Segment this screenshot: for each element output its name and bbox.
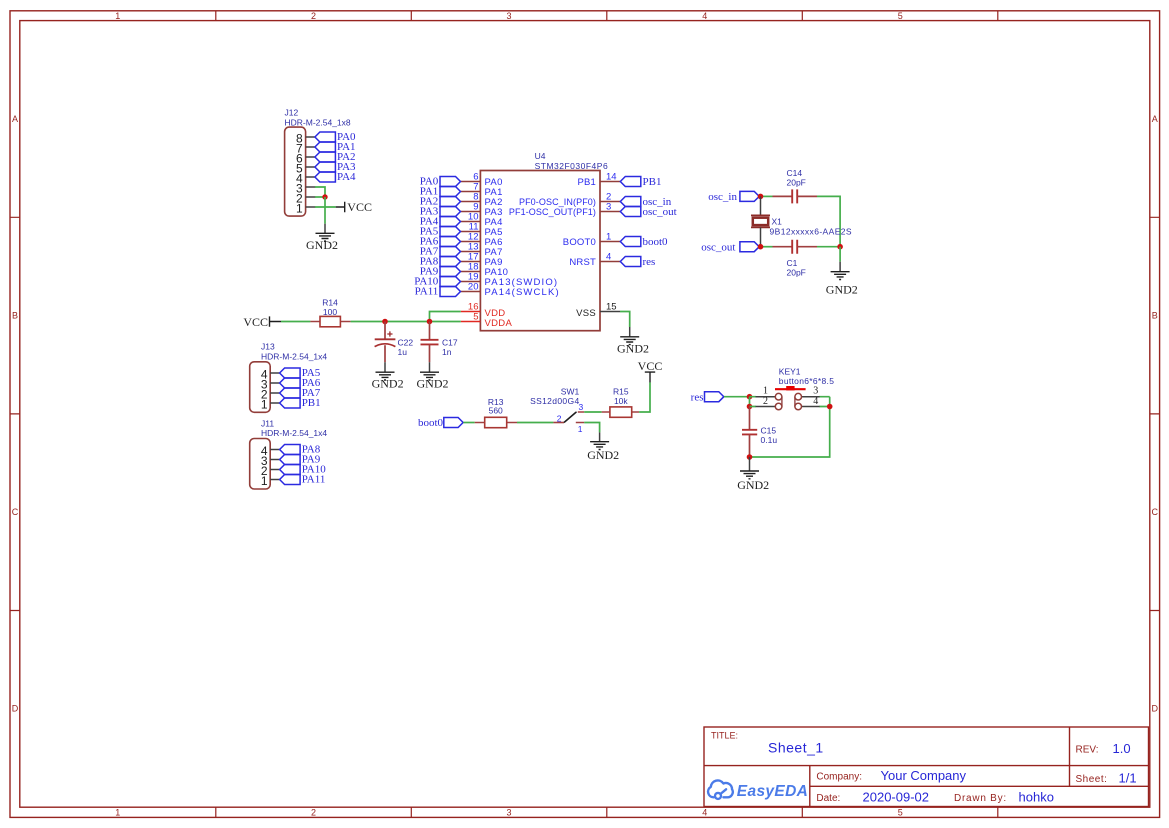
svg-text:1n: 1n — [442, 347, 452, 357]
crystal X1 lead top — [760, 196, 762, 215]
svg-text:2: 2 — [311, 808, 316, 818]
VCC port above R15 — [638, 359, 663, 383]
svg-text:PB1: PB1 — [302, 397, 321, 409]
svg-text:GND2: GND2 — [372, 377, 404, 391]
svg-text:HDR-M-2.54_1x4: HDR-M-2.54_1x4 — [261, 428, 327, 438]
svg-text:1: 1 — [115, 11, 120, 21]
svg-text:R15: R15 — [613, 386, 629, 396]
net flag PA2 at U4 — [420, 196, 461, 208]
wire right rail to ground — [839, 247, 841, 262]
svg-text:SW1: SW1 — [561, 386, 580, 396]
IC U4 left pin numbers — [468, 172, 479, 293]
ground GND2 below C22 — [372, 362, 404, 391]
net flag PA3 at U4 — [420, 206, 461, 218]
ground GND2 below crystal rail — [826, 262, 858, 297]
net flag PA1 at J12 — [315, 141, 356, 153]
svg-text:560: 560 — [489, 405, 503, 415]
net flag PB1 at J13 — [280, 397, 321, 409]
svg-text:A: A — [1152, 114, 1158, 124]
svg-text:J12: J12 — [285, 108, 299, 118]
resistor R14 — [310, 316, 350, 326]
net flag osc_in — [708, 191, 759, 203]
svg-text:hohko: hohko — [1019, 789, 1054, 804]
connector J13 body — [250, 362, 271, 413]
svg-text:1/1: 1/1 — [1119, 770, 1137, 785]
svg-text:PF0-OSC_IN(PF0): PF0-OSC_IN(PF0) — [519, 197, 596, 207]
net flag PA0 at J12 — [315, 131, 356, 143]
svg-text:GND2: GND2 — [617, 341, 649, 355]
IC U4 left pin stubs — [461, 182, 481, 292]
svg-text:GND2: GND2 — [826, 283, 858, 297]
svg-text:A: A — [12, 114, 18, 124]
ground GND2 below VSS — [617, 327, 649, 355]
junction at C22 — [382, 319, 388, 325]
net flag PA0 at U4 — [420, 176, 461, 188]
svg-text:100: 100 — [323, 307, 337, 317]
junction at osc_in — [758, 194, 764, 200]
wire R15 to VCC — [639, 382, 650, 412]
svg-text:C: C — [1152, 507, 1159, 517]
net flag PA8 at U4 — [420, 256, 461, 268]
switch SW1 — [553, 402, 584, 434]
net flag PA9 at U4 — [420, 266, 461, 278]
svg-text:20pF: 20pF — [787, 268, 806, 278]
svg-text:C14: C14 — [787, 168, 803, 178]
svg-text:D: D — [1152, 704, 1159, 714]
junction at KEY1 pin4 — [827, 404, 833, 410]
svg-text:PB1: PB1 — [643, 176, 662, 188]
IC U4 right pin stubs — [600, 182, 620, 262]
VCC port left of R14 — [243, 315, 281, 329]
junction at KEY1 pin2 — [747, 404, 753, 410]
wire KEY1 right pins to corner — [819, 397, 829, 407]
wire KEY1 right side down — [750, 397, 830, 457]
EasyEDA logo cloud — [708, 780, 733, 798]
frame row labels right — [1152, 114, 1159, 714]
svg-text:J11: J11 — [261, 418, 274, 428]
net flag PA4 at U4 — [420, 216, 461, 228]
svg-text:20: 20 — [468, 282, 479, 293]
svg-text:VCC: VCC — [243, 315, 268, 329]
svg-text:C: C — [12, 507, 19, 517]
net flag PA5 at U4 — [420, 226, 461, 238]
svg-text:5: 5 — [473, 312, 478, 323]
net flag PA8 at J11 — [280, 444, 321, 456]
capacitor C15 — [742, 407, 757, 458]
net flag osc_out — [701, 242, 759, 254]
svg-text:14: 14 — [606, 172, 617, 183]
wire osc_out to C1 — [759, 246, 772, 248]
svg-text:GND2: GND2 — [737, 478, 769, 492]
net flag PA6 at U4 — [420, 236, 461, 248]
wire branch up to VDD — [430, 312, 461, 322]
net flag res — [691, 391, 724, 403]
net flag PA9 at J11 — [280, 454, 321, 466]
net flag res at U4 — [620, 256, 655, 268]
svg-text:PA11: PA11 — [302, 474, 326, 486]
ground GND2 below SW1 — [587, 432, 619, 462]
net flag boot0 — [418, 417, 463, 429]
IC U4 VDD pin 16 — [461, 302, 506, 319]
net flag PA3 at J12 — [315, 161, 356, 173]
connector J12 pin numbers — [296, 132, 303, 216]
svg-text:GND2: GND2 — [417, 377, 449, 391]
crystal X1 — [751, 215, 770, 227]
wire res junction to KEY1 pins — [750, 397, 756, 407]
svg-text:NRST: NRST — [569, 257, 596, 268]
svg-text:VDDA: VDDA — [485, 318, 513, 329]
svg-text:Drawn By:: Drawn By: — [954, 793, 1007, 804]
resistor R13 — [475, 417, 517, 427]
frame column labels bottom — [115, 808, 902, 818]
svg-text:VSS: VSS — [576, 308, 596, 319]
svg-text:res: res — [691, 391, 704, 403]
wire boot0 to R13 — [463, 422, 474, 424]
net flag boot0 at U4 — [620, 236, 668, 248]
title block borders — [704, 727, 1149, 807]
svg-text:1: 1 — [578, 424, 583, 434]
IC U4 left pin names — [485, 177, 560, 298]
svg-text:C17: C17 — [442, 337, 458, 347]
wire VSS to ground — [620, 312, 630, 328]
net flag PA7 at U4 — [420, 246, 461, 258]
button KEY1 contacts — [756, 386, 820, 410]
svg-text:1: 1 — [261, 398, 268, 412]
svg-text:J13: J13 — [261, 342, 275, 352]
frame column labels top — [115, 11, 902, 21]
svg-text:button6*6*8.5: button6*6*8.5 — [779, 376, 834, 386]
svg-text:C22: C22 — [398, 337, 414, 347]
wire J12 pin1 to VCC — [315, 206, 336, 208]
svg-text:PA14(SWCLK): PA14(SWCLK) — [485, 287, 560, 298]
net flag osc_out at U4 — [620, 206, 676, 218]
net flag PA7 at J13 — [280, 387, 321, 399]
connector J13 pin stubs — [270, 373, 279, 403]
svg-text:5: 5 — [898, 808, 903, 818]
junction at KEY1 pin1 — [747, 394, 753, 400]
net flag PA4 at J12 — [315, 171, 356, 183]
connector J12 body — [285, 127, 306, 216]
wire R13 to SW1 — [517, 422, 553, 424]
svg-text:Sheet_1: Sheet_1 — [768, 740, 824, 756]
svg-text:4: 4 — [606, 252, 611, 263]
svg-text:3: 3 — [506, 808, 511, 818]
junction at J12 pin2 — [322, 194, 327, 199]
svg-text:3: 3 — [579, 402, 584, 412]
capacitor C14 — [773, 189, 818, 203]
svg-text:HDR-M-2.54_1x4: HDR-M-2.54_1x4 — [261, 351, 327, 361]
wire C14 to right rail — [817, 196, 840, 246]
IC U4 right pin names — [509, 177, 596, 268]
svg-text:HDR-M-2.54_1x8: HDR-M-2.54_1x8 — [285, 117, 351, 127]
IC U4 VSS pin 15 — [576, 302, 620, 319]
svg-text:STM32F030F4P6: STM32F030F4P6 — [535, 161, 609, 171]
svg-text:1: 1 — [606, 232, 611, 243]
svg-text:U4: U4 — [535, 151, 546, 161]
svg-text:GND2: GND2 — [587, 448, 619, 462]
wire KEY1 pin1 to pin2 — [749, 397, 751, 407]
svg-text:3: 3 — [606, 202, 611, 213]
capacitor C17 — [421, 322, 439, 363]
svg-text:osc_out: osc_out — [701, 242, 735, 254]
svg-text:PB1: PB1 — [577, 177, 596, 188]
net flag PA2 at J12 — [315, 151, 356, 163]
junction at right rail — [837, 244, 843, 250]
capacitor C22 polarized — [375, 322, 396, 363]
IC U4 right pin numbers — [606, 172, 617, 263]
wire SW1 pin1 to ground — [584, 423, 599, 433]
svg-text:boot0: boot0 — [418, 417, 444, 429]
ground GND2 below J12 — [306, 224, 338, 252]
svg-text:1u: 1u — [398, 347, 408, 357]
svg-text:EasyEDA: EasyEDA — [737, 783, 808, 800]
net flag PA10 at J11 — [280, 464, 327, 476]
svg-text:Your Company: Your Company — [881, 768, 967, 783]
svg-text:1: 1 — [296, 202, 303, 216]
svg-text:4: 4 — [702, 11, 707, 21]
svg-text:Sheet:: Sheet: — [1076, 774, 1108, 785]
svg-text:BOOT0: BOOT0 — [563, 237, 596, 248]
junction at C15 bottom — [747, 454, 753, 460]
net flag PA1 at U4 — [420, 186, 461, 198]
VCC port at J12 pin1 — [336, 200, 372, 214]
resistor R15 — [602, 407, 639, 417]
frame row labels left — [12, 114, 19, 714]
net flag PB1 at U4 — [620, 176, 661, 188]
svg-text:PA4: PA4 — [337, 171, 356, 183]
svg-text:KEY1: KEY1 — [779, 366, 801, 376]
svg-text:C1: C1 — [787, 258, 798, 268]
svg-text:Date:: Date: — [816, 793, 840, 804]
svg-text:4: 4 — [813, 396, 818, 407]
svg-text:D: D — [12, 704, 19, 714]
svg-text:osc_out: osc_out — [643, 206, 677, 218]
svg-text:3: 3 — [813, 386, 818, 397]
svg-text:VCC: VCC — [638, 359, 663, 373]
svg-text:boot0: boot0 — [643, 236, 669, 248]
net flag PA11 at U4 — [415, 286, 461, 298]
ground GND2 below C15 — [737, 457, 769, 492]
wire J12 pin2 to junction — [315, 196, 325, 198]
crystal X1 lead bottom — [760, 227, 762, 246]
svg-text:2020-09-02: 2020-09-02 — [863, 789, 930, 804]
svg-text:PF1-OSC_OUT(PF1): PF1-OSC_OUT(PF1) — [509, 207, 596, 217]
svg-text:Company:: Company: — [816, 772, 862, 783]
svg-text:1: 1 — [261, 474, 268, 488]
net flag PA11 at J11 — [280, 474, 326, 486]
junction at osc_out — [758, 244, 764, 250]
svg-text:VCC: VCC — [347, 200, 372, 214]
svg-text:REV:: REV: — [1076, 745, 1099, 756]
svg-text:9B12xxxxx6-AAE2S: 9B12xxxxx6-AAE2S — [770, 227, 852, 237]
svg-text:GND2: GND2 — [306, 238, 338, 252]
wire res to KEY1 — [724, 396, 750, 398]
svg-text:1.0: 1.0 — [1113, 741, 1131, 756]
wire J12 pin3 to junction — [315, 187, 325, 197]
svg-text:osc_in: osc_in — [708, 191, 737, 203]
connector J11 body — [250, 439, 271, 490]
net flag osc_in at U4 — [620, 196, 671, 208]
svg-text:20pF: 20pF — [787, 178, 806, 188]
svg-text:PA11: PA11 — [415, 286, 439, 298]
svg-text:2: 2 — [557, 413, 562, 423]
connector J11 pin numbers — [261, 444, 268, 488]
wire J12 junction down to ground — [324, 197, 326, 224]
net flag PA5 at J13 — [280, 367, 321, 379]
svg-text:C15: C15 — [761, 425, 777, 435]
IC U4 body — [480, 171, 600, 331]
svg-text:1: 1 — [763, 386, 768, 397]
svg-text:B: B — [12, 311, 18, 321]
ground GND2 below C17 — [417, 362, 449, 391]
connector J12 pin stubs — [306, 137, 316, 207]
connector J13 pin numbers — [261, 368, 268, 412]
junction at C17 — [427, 319, 433, 325]
svg-text:R14: R14 — [322, 297, 338, 307]
svg-text:B: B — [1152, 311, 1158, 321]
wire osc_in to C14 — [759, 195, 772, 197]
IC U4 VDDA pin 5 — [461, 312, 513, 329]
svg-text:10k: 10k — [614, 396, 628, 406]
svg-text:4: 4 — [702, 808, 707, 818]
svg-text:1: 1 — [115, 808, 120, 818]
svg-text:2: 2 — [311, 11, 316, 21]
svg-text:X1: X1 — [772, 217, 783, 227]
net flag PA6 at J13 — [280, 377, 321, 389]
wire VCC to R14 — [281, 321, 310, 323]
svg-text:SS12d00G4: SS12d00G4 — [530, 396, 579, 406]
net flag PA10 at U4 — [414, 276, 460, 288]
svg-text:15: 15 — [606, 302, 617, 313]
svg-text:2: 2 — [763, 396, 768, 407]
svg-text:res: res — [643, 256, 656, 268]
svg-text:5: 5 — [898, 11, 903, 21]
svg-text:0.1u: 0.1u — [761, 435, 778, 445]
wire SW1 pin3 to R15 — [584, 411, 602, 413]
svg-text:TITLE:: TITLE: — [711, 731, 738, 741]
capacitor C1 — [773, 240, 818, 254]
svg-text:3: 3 — [506, 11, 511, 21]
wire R14 to VDDA rail — [351, 321, 461, 323]
wire C1 to right rail — [817, 246, 840, 248]
button KEY1 actuator — [775, 386, 806, 390]
connector J11 pin stubs — [270, 450, 279, 480]
